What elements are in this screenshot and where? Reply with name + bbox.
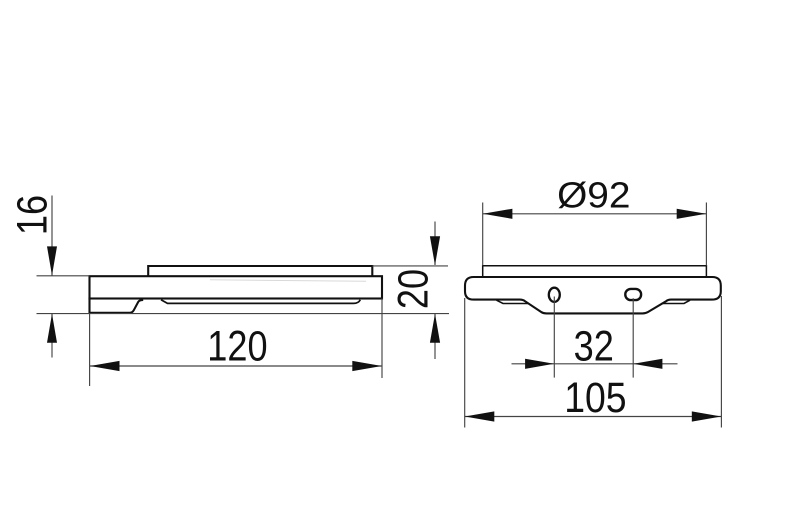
side view: dish plate top: [148, 266, 372, 277]
dimension 120: left arrow: [90, 361, 120, 371]
dimension 105: left arrow: [465, 411, 495, 421]
dimension 105: right arrow: [692, 411, 722, 421]
svg-text:20: 20: [390, 269, 437, 309]
dimension O92: right extension: [705, 203, 707, 266]
dimension O92: line: [483, 213, 707, 215]
svg-text:105: 105: [564, 375, 626, 422]
dimension 16: bottom arrow: [47, 314, 57, 343]
front view: left mounting hole: [549, 288, 560, 302]
dimension 32: left extension: [553, 297, 555, 378]
dimension 105: line: [465, 416, 722, 418]
front view: left sliver lip: [497, 300, 529, 303]
dimension 32: right extension: [632, 298, 634, 377]
dimension 16: line: [51, 196, 53, 276]
svg-text:Ø92: Ø92: [557, 175, 630, 215]
front view: bracket bar: [465, 277, 721, 313]
dimension 32: line: [512, 363, 678, 365]
dimension 105: right extension: [720, 296, 722, 428]
front view: right sliver lip: [662, 300, 691, 303]
side view: dish lip under body: [161, 300, 360, 304]
extension line: shared bottom: [37, 313, 450, 315]
svg-text:120: 120: [207, 323, 267, 370]
front view: right mounting slot: [625, 289, 641, 300]
extension line: 20 top: [372, 265, 448, 267]
side view: dish bottom faint line: [210, 280, 366, 282]
dimension 120: right extension: [381, 299, 383, 379]
dimension O92: left arrow: [483, 209, 513, 219]
dimension O92: left extension: [482, 203, 484, 266]
dimension 120: left extension: [89, 314, 91, 386]
svg-text:16: 16: [9, 195, 56, 235]
dimension 20: top arrow: [430, 236, 440, 265]
dimension 32: left arrow (outside, points right): [525, 359, 554, 369]
dimension 20: bottom arrow: [430, 314, 440, 343]
dimension 120: right arrow: [352, 361, 382, 371]
svg-text:32: 32: [574, 323, 614, 370]
side view: bracket body: [90, 276, 383, 298]
front view: dish outline: [483, 266, 707, 277]
dimension 16: top arrow: [47, 246, 57, 275]
dimension 120: line: [90, 365, 382, 367]
dimension 20: line: [434, 222, 436, 266]
dimension 105: left extension: [464, 298, 466, 428]
dimension 32: right arrow (outside, points left): [633, 359, 662, 369]
extension line: 16 top: [37, 275, 90, 277]
dimension O92: right arrow: [677, 209, 707, 219]
side view: wall mount foot: [90, 298, 144, 313]
